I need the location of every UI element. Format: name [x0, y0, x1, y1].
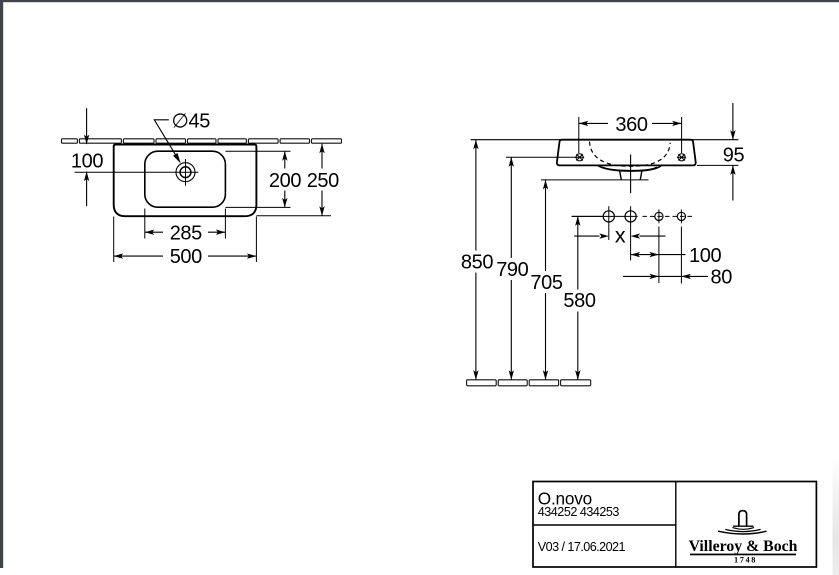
- tap hole Ø45 outer circle: [176, 163, 195, 182]
- dimension 95: [732, 103, 734, 201]
- dimension 250 (plan): [321, 144, 323, 216]
- svg-text:250: 250: [307, 170, 339, 192]
- inner bowl outline (plan): [145, 151, 226, 207]
- dimension 285 (plan): [145, 231, 226, 233]
- fixing hole right (front view): [677, 154, 686, 161]
- logo water arcs: [732, 528, 754, 530]
- dimension 100 (plan, wall to hole axis): [86, 108, 88, 206]
- svg-text:80: 80: [711, 267, 733, 289]
- extension line to fixing holes (790): [506, 156, 584, 158]
- extension line basin bottom right (95): [697, 164, 738, 166]
- tap hole position 3: [655, 212, 663, 220]
- bowl hidden rim (dashed, front view): [590, 142, 671, 167]
- dimension 80 (hole pitch): [623, 275, 708, 277]
- tap hole row solid centerline: [572, 215, 638, 217]
- tap hole centerline vertical tick: [185, 159, 187, 186]
- tap hole centerline horizontal: [75, 171, 199, 173]
- right edge shade: [0, 0, 1, 1]
- extension lines for 200 (bowl top/bottom): [225, 151, 290, 207]
- dimension 705 (height): [545, 180, 547, 380]
- washbasin body (front view): [557, 140, 696, 166]
- svg-text:Villeroy & Boch: Villeroy & Boch: [689, 538, 798, 555]
- tap hole inner circle: [180, 167, 191, 178]
- extension lines for 285 (bowl width): [145, 209, 226, 239]
- svg-text:100: 100: [689, 245, 721, 267]
- floor line (front view): [467, 380, 497, 386]
- extension line drain bottom (705): [541, 179, 649, 181]
- drain fitting (front view): [620, 171, 642, 180]
- title block outer box: [533, 482, 816, 568]
- extension line tap holes row (580): [572, 215, 603, 217]
- dimension 500 (plan): [114, 255, 257, 257]
- svg-text:95: 95: [723, 145, 745, 167]
- title block vertical divider: [675, 482, 677, 568]
- bowl underside (front view): [598, 165, 662, 171]
- svg-text:705: 705: [530, 272, 562, 294]
- dimension 360 extension lines: [579, 117, 682, 153]
- top dark bar: [0, 0, 839, 2]
- svg-text:x: x: [615, 223, 626, 247]
- extension lines for 500 (basin width): [114, 217, 257, 263]
- svg-text:434252 434253: 434252 434253: [538, 505, 620, 519]
- dimension x: [574, 235, 665, 237]
- dimension 100 (hole pitch): [631, 254, 686, 256]
- dimension 850 (height): [475, 140, 477, 380]
- Villeroy & Boch logo arch: [739, 511, 747, 526]
- dimension 580 (height): [577, 216, 579, 379]
- logo base bar: [733, 525, 753, 527]
- svg-text:V03 / 17.06.2021: V03 / 17.06.2021: [538, 540, 626, 554]
- svg-text:1748: 1748: [734, 556, 757, 565]
- leader line for Ø45: [154, 120, 178, 159]
- svg-text:100: 100: [71, 150, 103, 172]
- washbasin outer outline (plan): [114, 145, 257, 217]
- svg-text:360: 360: [615, 114, 647, 136]
- wall reference top line (front view): [471, 139, 739, 141]
- tap hole position 2 (drain axis): [625, 211, 636, 222]
- wordmark underline: [690, 554, 796, 556]
- dimension 360: [579, 122, 682, 124]
- tap hole position 4: [677, 212, 685, 220]
- drain centerline: [630, 155, 632, 194]
- svg-text:500: 500: [170, 246, 202, 268]
- svg-text:790: 790: [496, 259, 528, 281]
- svg-text:∅45: ∅45: [172, 110, 211, 132]
- title block horizontal divider: [533, 524, 676, 526]
- svg-text:580: 580: [563, 290, 595, 312]
- extension line for 250 (basin front edge): [256, 215, 331, 217]
- svg-text:200: 200: [269, 170, 301, 192]
- dimension 200 (plan): [284, 151, 286, 207]
- left dark bar: [0, 0, 3, 568]
- svg-text:850: 850: [461, 251, 493, 273]
- tap hole position 1: [603, 211, 614, 222]
- wall line (plan): [62, 139, 78, 143]
- svg-text:285: 285: [170, 222, 202, 244]
- dimension 790 (height): [510, 157, 512, 379]
- tap hole row dashed centerline: [643, 215, 693, 217]
- fixing hole left (front view): [575, 154, 584, 161]
